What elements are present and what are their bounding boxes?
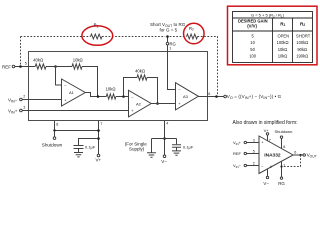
dashed wire top run left (21, 36, 91, 38)
wire A1 inverting input (56, 67, 62, 86)
svg-text:V−: V− (161, 159, 167, 164)
terminal VIN+ pin 3 (20, 109, 23, 112)
svg-text:10kΩ: 10kΩ (73, 58, 83, 63)
terminal VIN- (simplified) (244, 164, 246, 166)
amplifier internal box (29, 52, 208, 121)
terminal VIN+ (simplified) (244, 141, 246, 143)
svg-text:100: 100 (249, 54, 257, 59)
svg-text:6: 6 (208, 92, 210, 96)
svg-text:VIN+: VIN+ (233, 140, 242, 146)
svg-text:90kΩ: 90kΩ (297, 47, 307, 52)
wire cap branch (79, 139, 99, 146)
svg-text:190kΩ: 190kΩ (296, 54, 308, 59)
svg-text:10kΩ: 10kΩ (106, 86, 116, 91)
wire A3 inverting to RG (168, 45, 176, 90)
node pin7 top junction (97, 129, 100, 132)
svg-text:10: 10 (250, 40, 255, 45)
terminal V+ (97, 154, 100, 157)
dashed wire VOUT to RG (simplified) (283, 155, 301, 167)
wire V- pin (simplified) (267, 169, 269, 177)
svg-text:SHORT: SHORT (296, 33, 311, 38)
node A2 output junction (156, 102, 159, 105)
op-amp A2 (129, 90, 152, 117)
terminal Shutdown (280, 136, 282, 138)
svg-text:7: 7 (269, 138, 271, 142)
dashed wire R2 to output drop (198, 37, 218, 95)
node pin7 cap junction (97, 137, 100, 140)
table header separator (233, 30, 313, 32)
svg-text:7: 7 (100, 122, 102, 126)
wire REF lead (15, 66, 35, 68)
op-amp A3 (176, 83, 199, 110)
svg-text:Supply): Supply) (129, 147, 145, 152)
terminal Shutdown (53, 137, 56, 140)
simplified op-amp INA332 (259, 136, 293, 174)
svg-text:8: 8 (283, 145, 285, 149)
highlight circle around R2 (184, 23, 205, 44)
dashed wire R1 to RG node (102, 36, 165, 38)
svg-text:2: 2 (23, 95, 25, 99)
svg-text:3: 3 (253, 139, 255, 143)
svg-text:50: 50 (250, 47, 255, 52)
node A1 inverting divider junction (54, 65, 57, 68)
svg-text:V+: V+ (264, 128, 270, 133)
svg-text:V+: V+ (96, 158, 102, 163)
wire 10k to feedback corner (82, 67, 98, 97)
svg-text:INA332: INA332 (264, 153, 281, 159)
terminal V- (266, 176, 268, 178)
svg-text:A1: A1 (69, 90, 75, 95)
svg-text:RG: RG (278, 181, 285, 186)
svg-text:R2: R2 (189, 26, 194, 32)
wire VIN+ to A2 + (22, 110, 128, 112)
svg-text:OPEN: OPEN (278, 33, 290, 38)
terminal RG pin 1 (166, 42, 169, 45)
wire V+ pin 7 drop (98, 121, 100, 154)
svg-text:Also drawn in simplified form:: Also drawn in simplified form: (233, 120, 298, 126)
gain table outline (233, 12, 313, 63)
terminal REF (simplified) (244, 152, 246, 154)
resistor R1 external (91, 34, 103, 39)
terminal REF pin 5 (12, 65, 15, 68)
terminal V+ (266, 133, 268, 135)
wire RG pin (simplified) (281, 161, 283, 177)
dashed wire RG node to R2 (170, 36, 187, 38)
node A2 inverting junction (122, 95, 125, 98)
svg-text:10kΩ: 10kΩ (278, 54, 288, 59)
svg-text:G = 5 + 5 (R2 / R1): G = 5 + 5 (R2 / R1) (251, 13, 285, 19)
wire VIN- to A1 + (22, 99, 61, 101)
wire left ground stub (151, 139, 153, 153)
wire right cap stub (176, 139, 178, 145)
terminal VIN- pin 2 (20, 98, 23, 101)
wire junction to 10k (46, 66, 72, 68)
gain table red frame (228, 6, 318, 65)
svg-text:R1: R1 (280, 21, 285, 27)
node RG dashed junction (simplified) (280, 165, 282, 167)
resistor 40k (REF to A1- node) (35, 64, 46, 69)
svg-text:R1: R1 (94, 23, 99, 29)
node REF junction (19, 65, 22, 68)
svg-text:40kΩ: 40kΩ (135, 68, 145, 73)
node output junction (215, 95, 218, 98)
ground (V- bypass) (172, 151, 181, 155)
svg-text:Shutdown: Shutdown (275, 129, 293, 134)
wire 10k to A2- (116, 96, 129, 98)
op-amp A1 (62, 79, 86, 106)
resistor 40k (A2 feedback) (137, 75, 147, 80)
terminal VO output (224, 95, 227, 98)
wire REF (247, 153, 260, 155)
svg-text:5: 5 (253, 150, 255, 154)
wire VIN- (247, 165, 260, 167)
terminal V- (163, 155, 166, 158)
wire shutdown stub (54, 131, 56, 137)
svg-text:V−: V− (263, 181, 269, 186)
svg-text:4: 4 (270, 165, 272, 169)
svg-text:R2: R2 (300, 21, 305, 27)
capacitor 0.1uF (V+) (74, 146, 84, 153)
table column line 2 (292, 18, 294, 63)
svg-text:A3: A3 (183, 94, 189, 99)
wire A3 output pin 6 (198, 96, 224, 98)
table column line 1 (272, 18, 274, 63)
svg-text:for G = 5: for G = 5 (160, 28, 178, 33)
svg-text:40kΩ: 40kΩ (33, 58, 43, 63)
node RG dashed junction (166, 35, 169, 38)
wire A1 output jog (85, 93, 106, 97)
svg-text:0.1μF: 0.1μF (85, 145, 96, 150)
wire V- pin 4 drop (164, 121, 166, 155)
svg-text:0.1μF: 0.1μF (183, 144, 194, 149)
capacitor 0.1uF (V-) (172, 145, 181, 151)
node output junction (simplified) (299, 154, 301, 156)
svg-text:REF: REF (2, 64, 11, 69)
wire shutdown pin 8 drop (55, 121, 99, 131)
node pin4 junction (163, 137, 166, 140)
node A1 output/feedback (97, 95, 100, 98)
svg-text:1: 1 (169, 47, 171, 51)
wire Shutdown pin (simplified) (281, 138, 283, 149)
svg-text:VIN−: VIN− (233, 163, 242, 169)
wire output (simplified) (293, 154, 303, 156)
resistor 10k (A1 out to A2-) (106, 94, 116, 99)
svg-text:Shutdown: Shutdown (42, 142, 63, 147)
resistor R2 external (187, 34, 198, 39)
wire RG stub (167, 37, 169, 42)
resistor 10k (A1 feedback) (72, 64, 82, 69)
svg-text:A2: A2 (136, 101, 142, 106)
svg-text:6: 6 (294, 151, 296, 155)
wire V+ pin (simplified) (267, 135, 269, 141)
svg-text:10kΩ: 10kΩ (278, 47, 288, 52)
ground (V+ bypass) (74, 153, 83, 157)
svg-text:4: 4 (166, 122, 168, 126)
svg-text:5: 5 (25, 62, 27, 66)
svg-text:2: 2 (253, 162, 255, 166)
svg-text:100kΩ: 100kΩ (296, 40, 308, 45)
terminal RG (280, 177, 282, 179)
wire VIN+ (247, 142, 260, 144)
wire single-supply rail (152, 138, 177, 140)
svg-text:8: 8 (56, 123, 58, 127)
svg-text:100kΩ: 100kΩ (277, 40, 289, 45)
wire A2 feedback loop (124, 78, 158, 104)
svg-text:REF: REF (233, 151, 242, 156)
wire A2 out to A3 + (151, 103, 175, 105)
node shutdown junction (53, 129, 55, 131)
highlight ellipse around R1 (82, 26, 113, 45)
svg-text:3: 3 (23, 106, 25, 110)
table title separator (233, 17, 313, 19)
terminal VOUT (303, 154, 305, 156)
ground (single supply) (147, 153, 156, 157)
dashed wire REF node up (20, 37, 22, 65)
svg-text:(V/V): (V/V) (247, 23, 257, 28)
